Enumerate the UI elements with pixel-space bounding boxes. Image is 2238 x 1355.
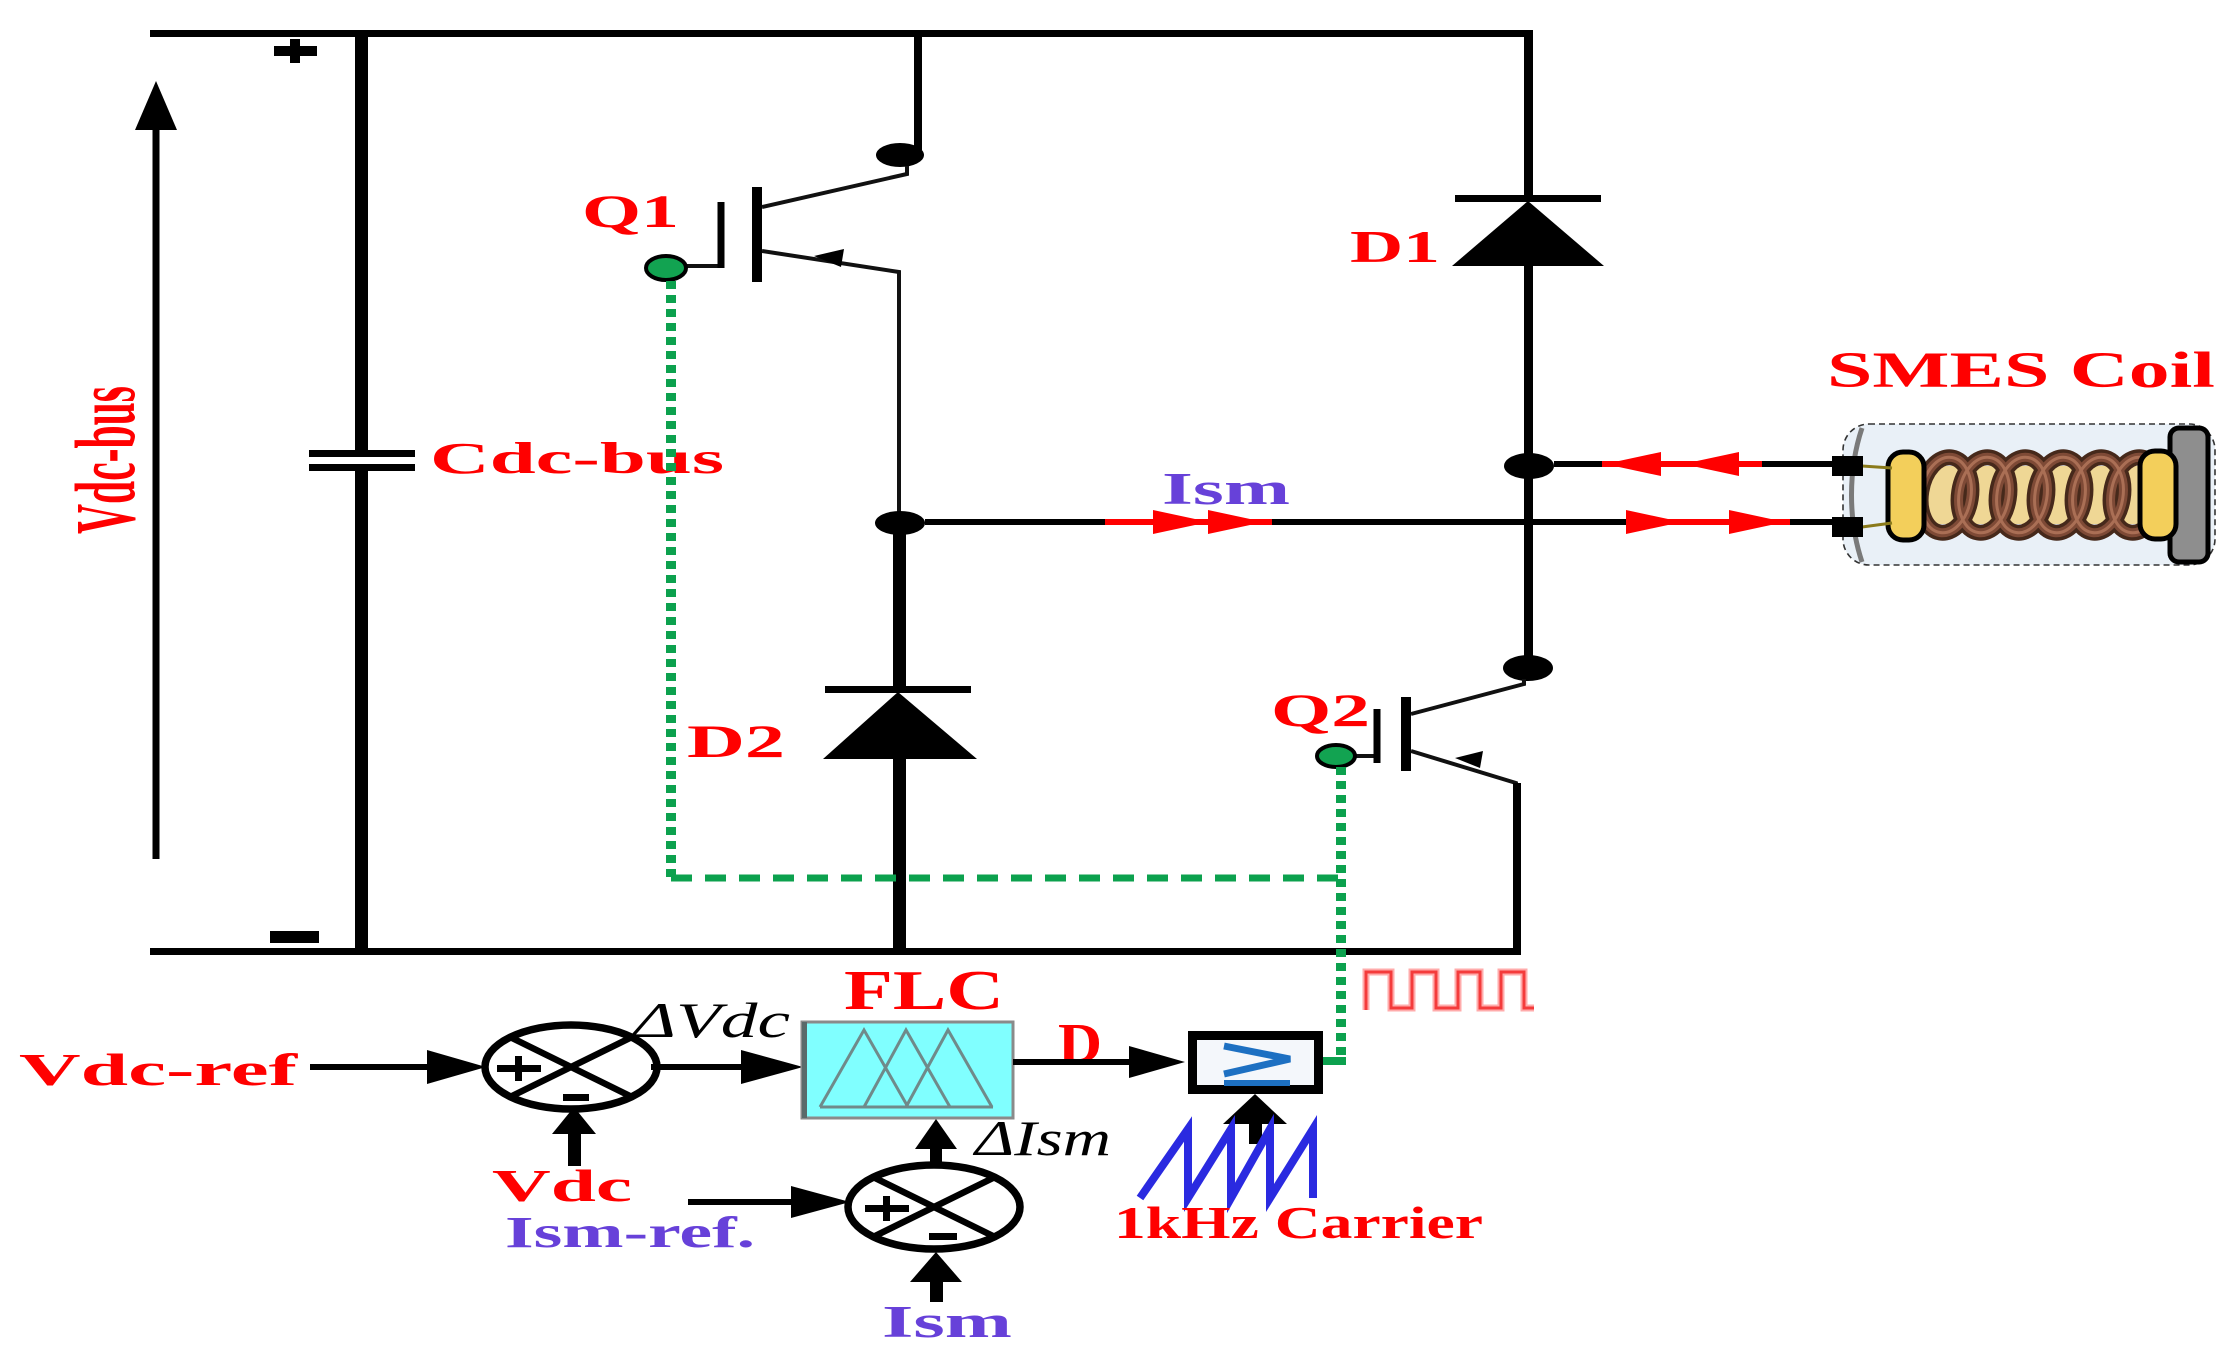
diode D2 <box>823 686 977 759</box>
capacitor Cdc-bus <box>309 450 415 471</box>
inductor SMES coil <box>1832 424 2215 565</box>
svg-text:Ism-ref.: Ism-ref. <box>505 1208 755 1257</box>
svg-text:Vdc: Vdc <box>492 1161 632 1211</box>
svg-text:ΔVdc: ΔVdc <box>630 992 790 1048</box>
node Q1 drain junction dot <box>876 143 924 167</box>
svg-text:Ism: Ism <box>1162 464 1290 514</box>
waveform 1kHz sawtooth carrier <box>1140 1129 1313 1198</box>
wire capacitor branch lower <box>355 464 368 954</box>
block comparator <box>1193 1036 1319 1090</box>
node mid-rail junction dot <box>875 511 925 535</box>
node Vdc-bus arrow annotation <box>135 81 177 859</box>
wire top DC bus <box>150 30 1533 37</box>
wire comparator output green <box>1323 1057 1346 1065</box>
svg-text:ΔIsm: ΔIsm <box>972 1110 1111 1166</box>
current arrows Ism (left set) <box>1105 510 1272 534</box>
svg-text:D: D <box>1058 1013 1102 1075</box>
wire Q2 source to bottom bus <box>1513 783 1521 955</box>
wire coil upper lead <box>1554 461 1832 467</box>
wire gate control horizontal green dashed <box>671 875 1341 882</box>
wire Vdc feedback arrow <box>552 1107 596 1166</box>
wire S1 to FLC arrow <box>651 1050 803 1084</box>
waveform PWM pulse train <box>1366 972 1534 1010</box>
wire capacitor branch upper <box>355 33 368 457</box>
block FLC fuzzy controller <box>802 1022 1013 1118</box>
wire right rail coil node to Q2 drain <box>1524 478 1533 658</box>
wire D2 anode to bottom bus <box>893 758 906 952</box>
node minus polarity mark <box>270 931 319 943</box>
current arrows Ism (right set) <box>1626 510 1790 534</box>
wire mid rail node to D2 <box>893 523 906 690</box>
wire gate control Q1 green dotted <box>666 281 676 880</box>
wire carrier input arrow to comparator <box>1223 1094 1287 1144</box>
node Q2 drain junction dot <box>1503 655 1553 681</box>
wire Ism feedback arrow <box>910 1252 962 1302</box>
svg-text:SMES Coil: SMES Coil <box>1827 343 2215 399</box>
wire right rail top bus to D1 <box>1524 33 1533 198</box>
node plus polarity mark <box>274 39 317 63</box>
svg-text:D1: D1 <box>1350 222 1440 272</box>
summing junction S2 <box>848 1165 1020 1249</box>
wire coil lower lead (Ism wire) <box>925 519 1832 525</box>
summing junction S1 <box>485 1025 657 1109</box>
wire Ism-ref to S2 arrow <box>688 1186 850 1218</box>
node coil upper junction dot <box>1504 453 1554 479</box>
wire middle rail from top bus to Q1 drain <box>914 33 922 150</box>
diode D1 <box>1452 195 1604 266</box>
svg-text:FLC: FLC <box>844 960 1004 1022</box>
wire gate control Q2 green dotted <box>1336 767 1346 1062</box>
svg-text:Q2: Q2 <box>1271 685 1370 737</box>
current arrows into node (upper lead) <box>1602 452 1762 476</box>
svg-text:Ism: Ism <box>882 1297 1012 1347</box>
transistor Q2 <box>1317 679 1524 790</box>
svg-text:D2: D2 <box>687 716 785 768</box>
svg-text:1kHz Carrier: 1kHz Carrier <box>1114 1197 1483 1248</box>
transistor Q1 <box>646 166 907 523</box>
wire right rail D1 to coil node <box>1524 266 1533 456</box>
svg-text:Vdc-ref: Vdc-ref <box>19 1045 299 1095</box>
wire FLC to comparator arrow <box>1013 1046 1185 1078</box>
wire S2 to FLC arrow <box>915 1119 957 1167</box>
wire Vdc-ref input arrow <box>310 1050 486 1084</box>
svg-text:Cdc-bus: Cdc-bus <box>430 434 724 483</box>
wire bottom DC bus <box>150 948 1521 955</box>
svg-text:Vdc-bus: Vdc-bus <box>58 386 153 534</box>
svg-text:Q1: Q1 <box>582 186 679 238</box>
